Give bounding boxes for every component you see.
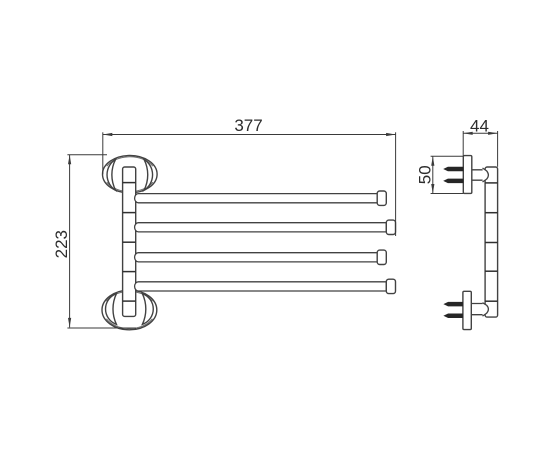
svg-text:44: 44 — [470, 117, 489, 136]
svg-text:223: 223 — [52, 230, 71, 258]
svg-text:50: 50 — [415, 165, 434, 184]
svg-text:377: 377 — [234, 116, 262, 135]
